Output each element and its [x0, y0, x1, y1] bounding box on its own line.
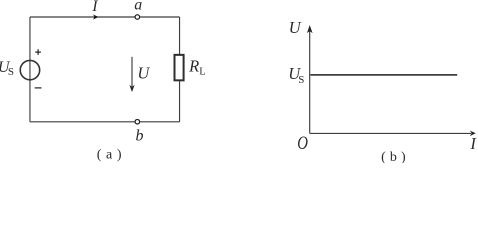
svg-text:U: U: [137, 64, 150, 83]
I axis: [310, 131, 476, 137]
label RL: [188, 56, 206, 77]
svg-text:U: U: [289, 18, 302, 37]
plus sign: [35, 49, 41, 55]
svg-text:b: b: [136, 127, 144, 144]
wire left: [29, 17, 31, 122]
svg-text:I: I: [469, 134, 477, 153]
current arrow I: [93, 14, 98, 19]
wire right: [179, 17, 181, 122]
svg-text:R: R: [188, 56, 199, 75]
axis label US: [288, 64, 304, 86]
voltage source US circle: [20, 60, 39, 79]
svg-text:a: a: [134, 0, 142, 14]
wire top: [30, 16, 180, 18]
voltage arrow U: [129, 57, 134, 92]
wire bottom: [30, 121, 180, 123]
node a: [135, 15, 140, 20]
svg-text:O: O: [297, 132, 308, 153]
U axis: [307, 25, 313, 133]
svg-text:( a ): ( a ): [97, 147, 122, 162]
node b: [135, 119, 140, 124]
svg-text:S: S: [8, 66, 14, 78]
label US: [0, 59, 14, 78]
svg-text:S: S: [298, 74, 304, 86]
svg-text:( b ): ( b ): [381, 150, 406, 163]
US characteristic line: [310, 74, 457, 76]
svg-text:L: L: [199, 66, 205, 77]
minus sign: [35, 87, 42, 89]
resistor RL: [175, 55, 184, 81]
svg-text:I: I: [91, 0, 98, 15]
